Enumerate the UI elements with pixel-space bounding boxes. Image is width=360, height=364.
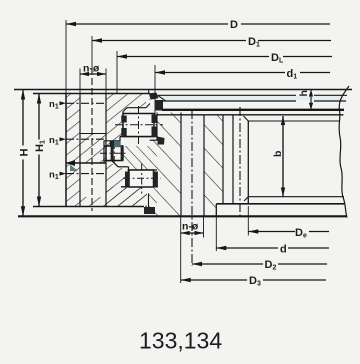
- top roller corner mark upper-left: [121, 116, 126, 123]
- svg-text:n-ø: n-ø: [182, 221, 199, 233]
- break line wavy: [339, 86, 349, 218]
- nose ring lower hatch: [149, 187, 158, 217]
- step horizontal at y140.8: [104, 140, 120, 142]
- top roller axis vertical: [138, 106, 140, 144]
- dimension h: [310, 90, 312, 110]
- svg-text:n-ø: n-ø: [83, 63, 100, 75]
- outer ring split line: [66, 162, 106, 164]
- n1 center line 3: [66, 173, 106, 175]
- ext line n-o bottom right: [203, 216, 205, 237]
- inner ring face x233: [232, 115, 234, 204]
- dimension n-o bottom: [181, 232, 204, 234]
- svg-text:H: H: [19, 149, 31, 157]
- top roller corner mark upper-right: [152, 115, 158, 124]
- ext lines n-o top: [79, 69, 81, 94]
- outer ring upper-right shoulder hatch: [106, 94, 150, 148]
- top plate left edge: [148, 90, 150, 94]
- n1 arrow 1: [60, 101, 67, 105]
- bottom roller left marks: [125, 172, 129, 187]
- middle pocket ceiling: [104, 145, 122, 147]
- top plate bottom thick line: [162, 109, 344, 111]
- nose bottom-left face: [148, 194, 150, 208]
- top roller pocket ceiling: [127, 107, 146, 109]
- dimension De: [248, 231, 295, 233]
- n1 arrow 3: [60, 172, 67, 176]
- bottom roller axis vertical: [141, 164, 143, 194]
- bore bottom silhouette line: [248, 196, 344, 198]
- top roller corner mark lower-right: [152, 127, 158, 138]
- inner ring hatched band right of bolt channel: [204, 115, 223, 217]
- svg-text:133,134: 133,134: [139, 328, 222, 354]
- step under top roller: [120, 136, 157, 138]
- outer ring lower half below-roller hatch: [106, 187, 147, 207]
- inner ring OD line: [156, 113, 158, 141]
- outer ring bolt hole right edge: [105, 94, 107, 207]
- ext line De: [247, 206, 249, 236]
- light blue tint band top right: [162, 96, 344, 101]
- dimension D1: [92, 40, 246, 42]
- outer ring bore face at middle roller: [103, 141, 105, 164]
- bore edge: [247, 121, 249, 204]
- bottom roller pocket ceiling: [128, 169, 158, 171]
- outer bolt center dashed line: [91, 36, 93, 68]
- bottom roller: [129, 170, 154, 187]
- middle roller: [106, 146, 123, 161]
- bottom roller axis horizontal: [123, 177, 161, 179]
- inner ring top face line: [157, 114, 344, 116]
- dimension D: [66, 23, 228, 25]
- ext line d1: [154, 65, 156, 115]
- middle roller right bar: [121, 147, 124, 160]
- pocket left wall chamfer: [123, 108, 127, 112]
- middle roller axis vertical: [113, 142, 115, 166]
- dimension d1: [155, 72, 285, 74]
- ext line d: [215, 216, 217, 251]
- seal blob top B: [156, 100, 164, 111]
- top plate inner line 2: [160, 100, 296, 102]
- n1 arrow 2: [60, 137, 67, 141]
- n1 center line 1: [66, 102, 106, 104]
- middle roller axis horizontal: [100, 152, 127, 154]
- dimension b: [282, 116, 284, 197]
- top roller corner mark lower-left: [121, 128, 126, 137]
- inner ring face x223: [222, 115, 224, 204]
- split line arrow mark: [66, 160, 75, 166]
- bolt channel right wall: [203, 115, 205, 217]
- outer ring lower half hatched body: [106, 163, 147, 207]
- nose top edge: [150, 139, 160, 141]
- bore bottom chamfer: [244, 197, 248, 201]
- bore center line x240: [239, 107, 241, 218]
- dimension d: [216, 247, 278, 249]
- pocket ceiling chamfer: [146, 104, 150, 108]
- inner bolt center line: [191, 110, 193, 266]
- outer ring top edge: [33, 93, 150, 95]
- pocket left wall: [122, 112, 124, 137]
- middle pocket floor diagonal: [112, 161, 118, 167]
- outer ring bottom edge: [33, 206, 144, 208]
- dimension D2: [192, 263, 263, 265]
- step horizontal at y147.7: [113, 147, 120, 149]
- green artifact triangle: [70, 165, 78, 172]
- bottom roller pocket left wall: [128, 167, 130, 187]
- bolt channel left wall: [180, 113, 182, 217]
- svg-text:d: d: [280, 244, 287, 256]
- step vertical left of blue seal: [119, 137, 121, 148]
- top roller axis horizontal: [115, 124, 163, 126]
- svg-text:b: b: [272, 151, 284, 157]
- outer ring bolt-hole bottom hatch: [80, 197, 106, 207]
- top plate top surface + H extension: [14, 89, 352, 91]
- ext line D: [65, 20, 67, 94]
- dimension n-o top: [80, 73, 106, 75]
- bottom roller right marks: [154, 172, 158, 187]
- counterbore bottom line: [80, 133, 106, 135]
- svg-text:h: h: [298, 90, 310, 96]
- dark mark left of blue seal: [111, 141, 115, 147]
- outer ring bolt counterbore bottom hatch: [80, 134, 106, 164]
- ext line n-o bottom left / D3: [180, 216, 182, 283]
- bottom flange top surface: [216, 203, 345, 205]
- outer ring left strip hatch: [66, 94, 80, 207]
- blue seal element: [114, 141, 121, 147]
- nose corner dark blob: [158, 137, 165, 145]
- light tint inner bolt channel: [182, 115, 204, 215]
- svg-text:D: D: [230, 19, 238, 31]
- seal chamfer diagonal: [158, 95, 166, 101]
- top plate inner line 1: [158, 94, 296, 96]
- outer ring left edge: [65, 94, 67, 207]
- inner ring main hatched band: [157, 113, 181, 217]
- bottom roller pocket floor: [121, 186, 158, 188]
- outer ring bolt hole left edge: [79, 94, 81, 207]
- bottom line of assembly + H extension: [18, 215, 347, 217]
- bottom roller pocket shelf: [118, 166, 129, 168]
- dimension D3: [181, 279, 247, 281]
- n1 center line 2: [66, 138, 106, 140]
- top roller: [123, 114, 154, 137]
- label background H: [18, 146, 30, 160]
- step vertical x110.3: [109, 141, 111, 146]
- ext line DL: [116, 51, 118, 94]
- bottom flange left edge: [215, 204, 217, 217]
- dimension H1: [38, 94, 40, 207]
- middle pocket floor: [104, 160, 112, 162]
- bottom seal blob: [144, 207, 155, 214]
- nose ring upper hatch: [122, 140, 157, 170]
- bore top chamfer: [244, 116, 249, 121]
- bore top silhouette line: [248, 120, 340, 122]
- middle roller left bar: [111, 147, 114, 160]
- seal blob top A: [149, 93, 159, 100]
- dimension DL: [117, 56, 269, 58]
- label background H1: [33, 140, 45, 155]
- dimension H: [22, 90, 24, 217]
